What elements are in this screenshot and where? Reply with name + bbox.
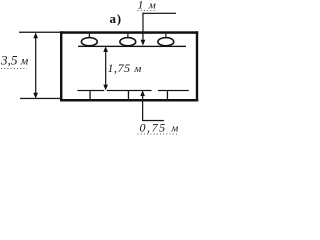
- leader horizontal 0,75 m: [142, 120, 164, 121]
- table T1 leg: [89, 91, 90, 99]
- leader horizontal 1 m: [142, 13, 176, 14]
- svg-text:3,5 м: 3,5 м: [0, 53, 29, 68]
- svg-text:1 м: 1 м: [138, 0, 157, 12]
- left wall: [60, 31, 62, 101]
- lamp L1 stem: [89, 34, 90, 38]
- table T3 top: [158, 90, 189, 91]
- leader vertical 1 m: [142, 13, 143, 42]
- svg-text:а): а): [110, 11, 122, 26]
- svg-text:0,75 м: 0,75 м: [140, 121, 180, 135]
- arrowhead down 3,5 m: [33, 93, 38, 99]
- underline dotted 3,5 m: [1, 68, 27, 70]
- lamp L3 bulb: [158, 38, 174, 46]
- lamp suspension line: [78, 46, 186, 47]
- ceiling: [60, 31, 198, 34]
- table T2 leg: [128, 91, 129, 99]
- arrowhead up 3,5 m: [33, 32, 38, 38]
- lamp L1 bulb: [81, 38, 97, 46]
- floor: [60, 99, 198, 102]
- lamp L2 stem: [127, 34, 128, 38]
- table T1 top: [78, 90, 105, 91]
- arrowhead down 1 m: [141, 40, 146, 46]
- leader vertical 0,75 m: [142, 93, 143, 121]
- arrowhead down 1,75 m: [103, 85, 108, 91]
- dimension line 3,5 m: [35, 36, 36, 94]
- svg-text:1,75 м: 1,75 м: [108, 61, 142, 75]
- lamp L3 stem: [165, 34, 166, 38]
- floor extension line: [20, 98, 60, 99]
- lamp L2 bulb: [120, 38, 136, 46]
- table T3 leg: [167, 91, 168, 99]
- ceiling extension line: [19, 32, 60, 33]
- right wall: [196, 31, 198, 101]
- table T2 top: [107, 90, 152, 91]
- underline dotted 0,75 m: [138, 133, 180, 135]
- dimension line 1,75 m: [105, 49, 106, 88]
- arrowhead up 0,75 m: [140, 90, 145, 96]
- arrowhead up 1,75 m: [103, 46, 108, 52]
- underline dotted 1 m: [138, 10, 158, 12]
